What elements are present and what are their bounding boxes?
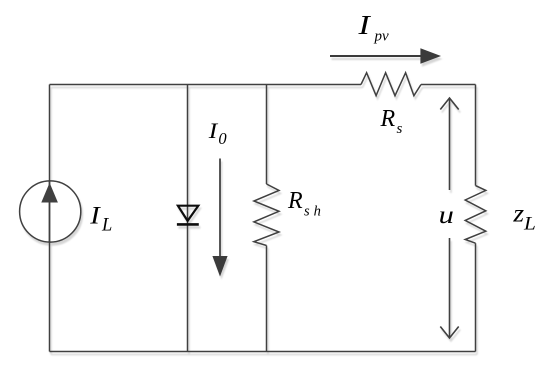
resistor R_sh zigzag [254, 184, 279, 246]
svg-text:R: R [380, 106, 396, 132]
wire R_sh branch lower [266, 246, 268, 352]
diode D1 triangle [178, 206, 198, 221]
wire R_sh branch upper [266, 85, 268, 185]
wire left [49, 85, 51, 352]
diode D1 cathode bar [177, 223, 199, 226]
svg-text:L: L [101, 216, 112, 236]
resistor z_L zigzag [465, 186, 486, 244]
wire right upper [475, 85, 477, 186]
svg-text:I: I [357, 10, 371, 40]
svg-text:u: u [439, 202, 454, 230]
svg-text:z: z [512, 200, 524, 228]
current source I_L circle [20, 181, 81, 242]
arrow I_pv [330, 48, 441, 64]
wire diode branch [187, 85, 189, 352]
current source wire through [49, 181, 51, 242]
arrow u (voltage annotation) [440, 98, 458, 338]
wire right lower [475, 243, 477, 351]
svg-text:pv: pv [374, 29, 390, 45]
arrow I_0 [212, 159, 227, 277]
svg-text:R: R [287, 188, 303, 214]
svg-text:I: I [89, 201, 102, 229]
svg-text:s: s [397, 121, 403, 137]
svg-text:sh: sh [304, 204, 325, 220]
resistor R_s zigzag [361, 73, 421, 96]
current source arrow [41, 183, 58, 203]
svg-text:I: I [208, 119, 219, 143]
svg-text:L: L [523, 214, 536, 234]
wire top [50, 84, 362, 86]
svg-text:0: 0 [218, 129, 227, 148]
wire bottom [50, 351, 476, 353]
wire top right [421, 84, 476, 86]
